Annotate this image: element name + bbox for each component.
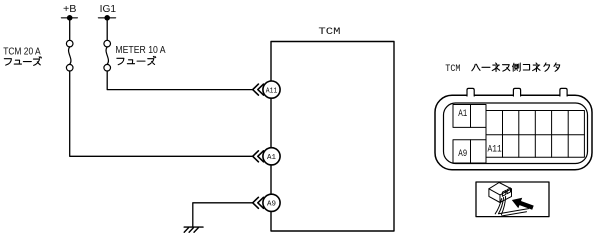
wire pin A9 to ground (193, 203, 253, 227)
terminal block A9 (453, 140, 486, 163)
svg-text:A1: A1 (458, 109, 467, 120)
connector outer shell (435, 95, 592, 169)
node +B terminal (62, 15, 78, 21)
svg-text:A9: A9 (267, 201, 276, 209)
connector lock tab 3 (560, 88, 567, 96)
pin A11 (263, 81, 280, 98)
arrow pointing at connector icon (512, 198, 534, 210)
label fuse (katakana) right (117, 56, 156, 65)
fuse F2 METER 10A (104, 40, 111, 71)
connector inner shell (444, 103, 588, 164)
connector icon (3d) (489, 183, 529, 217)
pin A1 (263, 148, 280, 165)
node IG1 terminal (99, 15, 116, 21)
svg-text:TCM: TCM (445, 64, 460, 75)
terminal grid (486, 111, 584, 158)
label fuse (katakana) left (4, 57, 41, 66)
label harness-side connector (katakana) (472, 63, 560, 72)
svg-text:METER 10 A: METER 10 A (115, 45, 165, 56)
connector lock tab 2 (513, 88, 520, 96)
wire fuse F2 to pin A11 (107, 71, 253, 90)
svg-text:TCM: TCM (318, 27, 340, 38)
svg-text:A11: A11 (488, 144, 502, 155)
detail box (476, 182, 549, 217)
svg-text:+B: +B (63, 4, 77, 15)
connector lock tab 1 (467, 88, 474, 96)
ground (184, 227, 203, 232)
svg-text:A11: A11 (266, 87, 278, 95)
wire +B down to fuse F1 (69, 18, 71, 41)
chevron at A11 (253, 84, 264, 95)
wire fuse F1 to pin A1 (70, 71, 253, 156)
terminal block A1 (453, 105, 486, 128)
fuse F1 TCM 20A (66, 40, 73, 71)
svg-text:IG1: IG1 (100, 4, 117, 15)
svg-text:TCM 20 A: TCM 20 A (3, 46, 41, 57)
svg-text:A1: A1 (267, 154, 276, 162)
pin A9 (263, 194, 280, 211)
chevron at A1 (253, 151, 264, 162)
svg-text:A9: A9 (458, 149, 467, 160)
chevron at A9 (253, 197, 264, 208)
wire IG1 down to fuse F2 (106, 18, 108, 41)
TCM box (271, 42, 394, 232)
